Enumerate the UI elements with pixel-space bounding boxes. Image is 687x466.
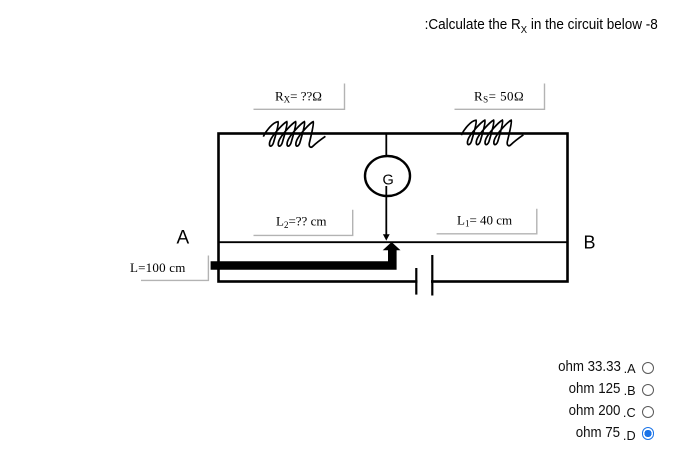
svg-text:L=100 cm: L=100 cm bbox=[130, 260, 186, 275]
svg-text:L1= 40 cm: L1= 40 cm bbox=[457, 213, 512, 229]
svg-text:RX= ??Ω: RX= ??Ω bbox=[275, 88, 322, 104]
svg-text:L2=?? cm: L2=?? cm bbox=[276, 214, 326, 230]
svg-text:A: A bbox=[177, 228, 190, 249]
svg-text:RS= 50Ω: RS= 50Ω bbox=[474, 88, 524, 104]
svg-text:B: B bbox=[584, 233, 596, 253]
svg-text:G: G bbox=[383, 173, 394, 189]
